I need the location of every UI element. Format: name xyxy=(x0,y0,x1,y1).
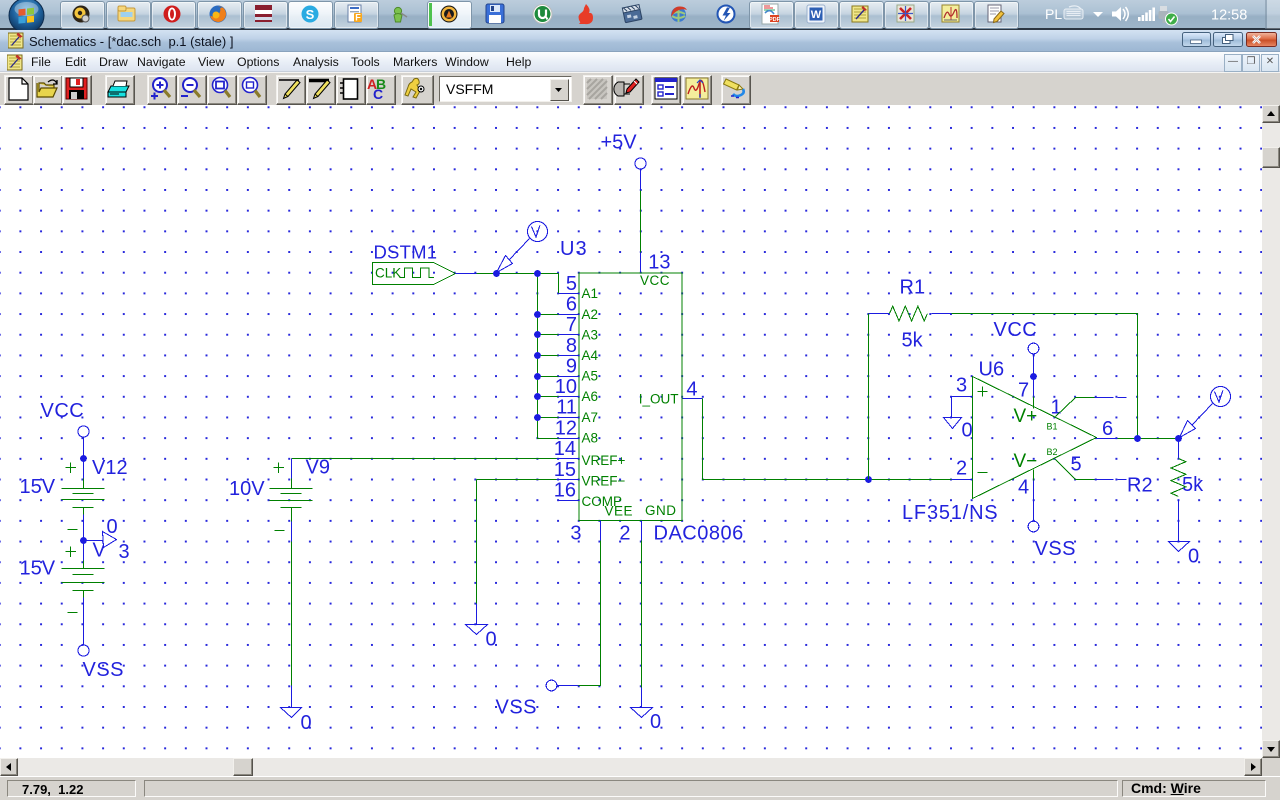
U6 output pin stub xyxy=(1097,438,1118,440)
1 media xyxy=(73,6,90,23)
setup analysis xyxy=(655,78,677,99)
wire bus down left side of U3 xyxy=(538,274,559,439)
junction dot output at R2 xyxy=(1175,435,1182,442)
svg-text:LF351/NS: LF351/NS xyxy=(902,502,998,524)
U3 right pin 4 stub xyxy=(683,398,703,400)
open xyxy=(37,80,57,97)
svg-text:5k: 5k xyxy=(1182,474,1204,496)
U6 output wire to R2 xyxy=(1118,438,1179,440)
wire VREF+ net from V9 xyxy=(292,458,557,460)
svg-text:0: 0 xyxy=(486,629,497,651)
voltage marker V on CLK net xyxy=(497,222,548,273)
wire VEE net down from U3 xyxy=(579,541,601,686)
ground symbol 0 at U6 pin 3 xyxy=(944,397,962,429)
junction dot VCC net xyxy=(80,455,87,462)
5 ati xyxy=(255,5,272,22)
svg-text:0: 0 xyxy=(650,711,661,733)
15 daemon xyxy=(718,6,735,23)
svg-text:VREF+: VREF+ xyxy=(582,453,626,468)
svg-text:12:58: 12:58 xyxy=(1211,8,1247,24)
svg-text:U6: U6 xyxy=(979,359,1005,381)
20 probe chart xyxy=(942,5,959,22)
VSS power port (left) xyxy=(78,598,124,682)
svg-text:A1: A1 xyxy=(582,286,599,301)
8 green sprite xyxy=(394,7,407,22)
svg-text:VREF−: VREF− xyxy=(582,473,626,488)
zoom in xyxy=(151,78,170,100)
13 movie clapper xyxy=(622,5,642,23)
usb plug xyxy=(1159,6,1178,25)
svg-text:6: 6 xyxy=(1102,418,1113,440)
svg-text:V−: V− xyxy=(1014,451,1038,472)
10 floppy xyxy=(486,4,504,23)
svg-text:V12: V12 xyxy=(92,457,128,479)
svg-text:GND: GND xyxy=(645,503,677,518)
svg-text:3: 3 xyxy=(119,541,130,563)
svg-text:12: 12 xyxy=(555,418,577,440)
network bars xyxy=(1138,8,1155,22)
U6 input pin stubs xyxy=(952,397,973,480)
18 schematics app xyxy=(852,6,868,22)
svg-text:VCC: VCC xyxy=(640,273,670,288)
horizontal scrollbar xyxy=(0,758,1262,776)
zoom area xyxy=(213,78,231,98)
zoom fit xyxy=(243,78,261,98)
svg-text:13: 13 xyxy=(648,252,670,274)
11 utorrent xyxy=(533,5,552,24)
svg-text:VSS: VSS xyxy=(1035,538,1077,560)
9 aimp xyxy=(441,6,458,23)
wire V9 minus down xyxy=(291,522,293,542)
junction dot output at R1 xyxy=(1134,435,1141,442)
svg-text:7: 7 xyxy=(566,314,577,336)
svg-text:V9: V9 xyxy=(306,457,330,479)
+5V power port xyxy=(601,132,647,191)
svg-text:16: 16 xyxy=(554,480,576,502)
ground symbol 0 on VREF- net xyxy=(466,604,488,635)
draw wire xyxy=(279,80,300,99)
save xyxy=(66,78,87,99)
svg-text:9: 9 xyxy=(566,355,577,377)
svg-text:DSTM1: DSTM1 xyxy=(374,242,438,263)
VSS power port under U3 xyxy=(496,680,579,718)
wire R1 left leg down to I_OUT net xyxy=(868,314,870,480)
U3 bottom pin stubs (VEE pin 3, GND pin 2) xyxy=(601,521,642,541)
svg-text:PL: PL xyxy=(1045,6,1062,22)
svg-text:A8: A8 xyxy=(582,430,599,445)
svg-text:B1: B1 xyxy=(1047,421,1058,431)
svg-text:A6: A6 xyxy=(582,389,599,404)
svg-text:11: 11 xyxy=(556,397,577,419)
svg-text:10V: 10V xyxy=(229,478,265,500)
DSTM1 output pin stub xyxy=(456,273,477,275)
start orb xyxy=(7,0,46,36)
svg-text:CLK: CLK xyxy=(375,266,401,281)
toolbar xyxy=(0,72,1280,105)
Windows taskbar xyxy=(0,0,1280,30)
source V13 battery xyxy=(62,547,105,613)
svg-text:S: S xyxy=(306,7,315,22)
VCC power port (left) xyxy=(41,400,90,479)
svg-text:0: 0 xyxy=(301,712,312,734)
svg-text:A3: A3 xyxy=(582,327,599,342)
U6 pin names inside xyxy=(1014,406,1038,472)
svg-text:14: 14 xyxy=(554,438,576,460)
combobox xyxy=(439,76,572,102)
draw bus xyxy=(309,80,330,99)
svg-text:R2: R2 xyxy=(1127,475,1153,497)
svg-text:A5: A5 xyxy=(582,369,599,384)
zoom out xyxy=(181,78,200,97)
show desktop xyxy=(1265,0,1267,29)
svg-text:5: 5 xyxy=(1071,454,1082,476)
U3 left pin stubs xyxy=(557,294,580,501)
wire elbow to pin A1 xyxy=(558,274,560,294)
new xyxy=(9,78,28,100)
source V9 battery xyxy=(270,463,313,531)
marker pencil xyxy=(724,79,744,98)
wire V12 to V13 xyxy=(83,515,85,561)
taskbar icons xyxy=(0,0,1280,30)
U6 balance pin 5 stub xyxy=(1056,460,1095,480)
simulate xyxy=(686,78,708,99)
wire I_OUT net to op-amp xyxy=(869,479,952,481)
svg-text:C: C xyxy=(373,86,383,102)
junction dot CLK net at bus xyxy=(534,270,541,277)
svg-text:VCC: VCC xyxy=(41,400,85,422)
svg-text:7: 7 xyxy=(1018,380,1029,402)
svg-text:3: 3 xyxy=(570,523,581,545)
svg-text:3: 3 xyxy=(956,375,967,397)
edit part xyxy=(614,79,639,96)
junction dot on pin 7 stub xyxy=(1030,373,1037,380)
junction dot between V12 and V13 xyxy=(80,537,87,544)
4 firefox xyxy=(210,6,227,23)
disabled hatch xyxy=(587,79,607,99)
toolbar icons xyxy=(0,73,1280,106)
svg-text:15V: 15V xyxy=(20,476,56,498)
svg-text:VSS: VSS xyxy=(496,697,538,719)
svg-text:5k: 5k xyxy=(902,330,924,352)
op-amp U6 LF351 xyxy=(973,377,1097,499)
print xyxy=(108,81,129,97)
svg-text:R1: R1 xyxy=(900,277,926,299)
menu bar xyxy=(0,52,1280,72)
draw block xyxy=(340,79,358,99)
ground symbol 0 under R2 xyxy=(1169,521,1190,552)
svg-text:15: 15 xyxy=(554,459,576,481)
svg-text:0: 0 xyxy=(962,420,973,442)
IC U3 DAC0806 body xyxy=(579,273,682,521)
19 red X xyxy=(897,5,914,22)
svg-text:10: 10 xyxy=(555,376,577,398)
svg-text:4: 4 xyxy=(1018,477,1029,499)
16 pdf xyxy=(762,4,781,24)
status bar xyxy=(0,776,1280,800)
svg-text:VEE: VEE xyxy=(605,504,634,519)
6 skype xyxy=(302,6,319,23)
get part (walking) xyxy=(405,78,424,98)
resistor R2 xyxy=(1171,439,1186,521)
U6 balance pin 1 stub xyxy=(1056,398,1095,417)
svg-text:A7: A7 xyxy=(582,410,599,425)
wire R1 right to output net xyxy=(952,314,1138,439)
svg-text:4: 4 xyxy=(686,379,697,401)
svg-text:B2: B2 xyxy=(1047,447,1058,457)
12 flame xyxy=(579,4,593,24)
tray expand arrow xyxy=(1093,12,1103,17)
wire VREF- net xyxy=(477,479,557,481)
svg-text:DAC0806: DAC0806 xyxy=(654,523,744,545)
vertical scrollbar xyxy=(1262,105,1280,758)
U3 pin names xyxy=(582,273,679,519)
junction dot CLK net at marker xyxy=(493,270,500,277)
svg-text:PDF: PDF xyxy=(769,17,781,23)
ground symbol 0 under U3 GND xyxy=(631,688,653,718)
junction dots on bus at pins A2-A7 xyxy=(534,311,541,421)
wire VREF- down to ground xyxy=(476,480,478,604)
svg-text:F: F xyxy=(355,13,361,23)
svg-text:W: W xyxy=(811,9,822,21)
14 IE globe xyxy=(671,6,687,22)
3 opera xyxy=(164,6,181,23)
text ABC xyxy=(367,76,386,102)
svg-text:VSS: VSS xyxy=(83,659,125,681)
U6 pin 4 stub and VSS port xyxy=(1028,470,1076,561)
svg-text:5: 5 xyxy=(566,273,577,295)
svg-text:2: 2 xyxy=(956,458,967,480)
svg-text:I_OUT: I_OUT xyxy=(639,392,679,407)
svg-text:U3: U3 xyxy=(560,238,588,260)
svg-text:8: 8 xyxy=(566,335,577,357)
U6 pin 7 stub and VCC port xyxy=(994,319,1039,409)
speaker xyxy=(1112,7,1128,21)
svg-text:A4: A4 xyxy=(582,348,599,363)
clock stimulus DSTM1 symbol xyxy=(373,263,456,285)
junction dot I_OUT at R1 xyxy=(865,476,872,483)
application title bar xyxy=(0,30,1280,52)
wire CLK net to DAC xyxy=(477,273,559,275)
17 word xyxy=(807,5,825,23)
V9 top pin wire to VREF+ xyxy=(291,459,293,479)
U6 pin numbers xyxy=(956,375,1113,499)
wire branches bus to pins A2-A7 xyxy=(538,315,559,418)
svg-text:VCC: VCC xyxy=(994,319,1038,341)
svg-text:+5V: +5V xyxy=(601,132,638,154)
svg-text:V+: V+ xyxy=(1014,406,1038,427)
wire I_OUT net xyxy=(703,399,869,480)
21 doc pencil xyxy=(988,5,1004,23)
svg-text:A2: A2 xyxy=(582,307,599,322)
wire GND net down from U3 xyxy=(641,541,643,688)
svg-text:1: 1 xyxy=(1051,397,1062,419)
7 doc F xyxy=(348,5,362,23)
taskbar app buttons xyxy=(60,1,105,29)
U3 pin numbers xyxy=(554,252,698,545)
resistor R1 xyxy=(869,306,952,321)
2 folder xyxy=(118,6,135,21)
svg-text:15V: 15V xyxy=(20,558,56,580)
U3 top pin 13 stub xyxy=(640,253,642,273)
bias viewpoint arrow with value 0 at V12/V13 node xyxy=(84,516,130,563)
svg-text:6: 6 xyxy=(566,294,577,316)
svg-text:0: 0 xyxy=(1188,546,1199,568)
voltage marker V on output net xyxy=(1180,387,1231,438)
svg-text:2: 2 xyxy=(619,523,630,545)
wire +5V to U3 pin 13 xyxy=(640,191,642,253)
U6 balance pin names xyxy=(1047,421,1058,457)
source V12 battery xyxy=(62,463,105,530)
ground symbol 0 under V9 xyxy=(281,686,302,718)
